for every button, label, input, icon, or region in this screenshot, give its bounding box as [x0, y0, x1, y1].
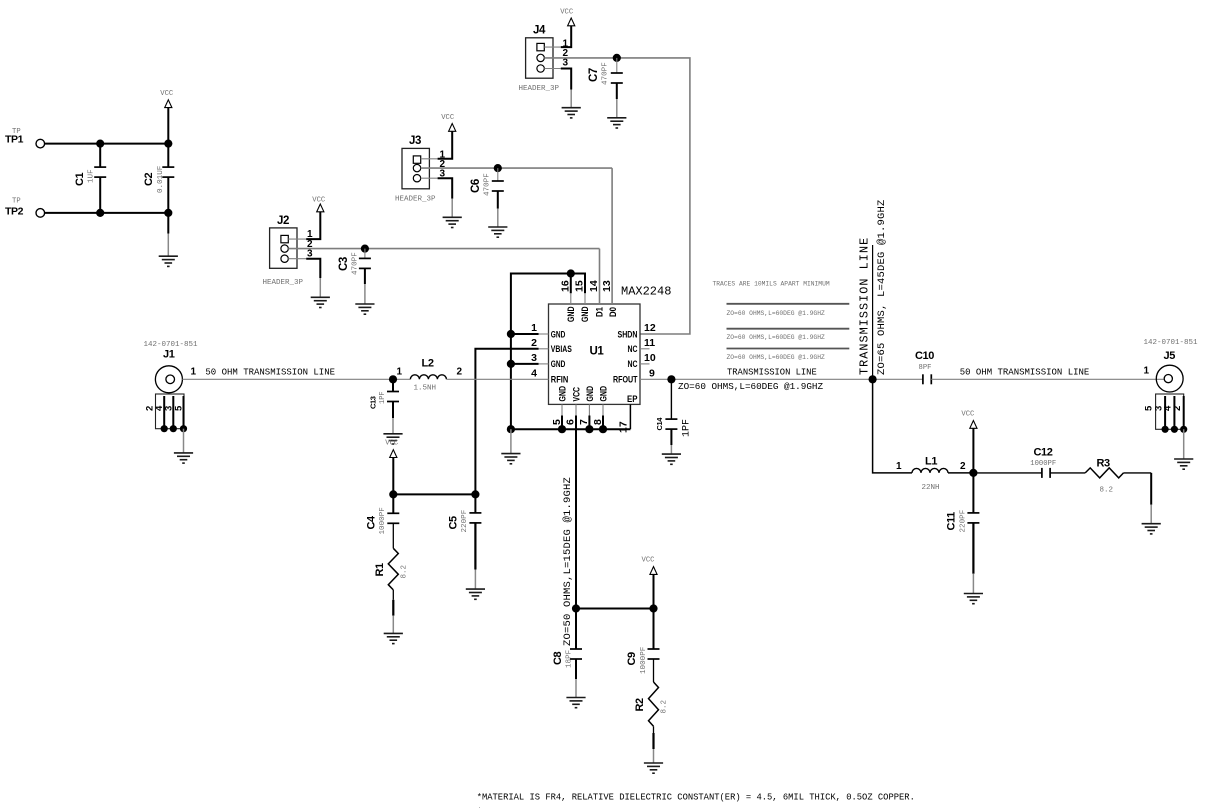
wire L1 to junction [948, 472, 973, 474]
node rail junction pin8 [599, 425, 607, 433]
trace stub 1 [727, 303, 850, 305]
svg-text:C12: C12 [1034, 447, 1053, 459]
wire U1 pin13 D0 [611, 168, 613, 304]
svg-text:TP: TP [12, 197, 21, 205]
svg-text:J2: J2 [277, 215, 289, 227]
svg-text:VCC: VCC [961, 411, 975, 419]
svg-text:8PF: 8PF [919, 364, 932, 372]
svg-text:C10: C10 [915, 350, 934, 362]
power VCC J4 [560, 9, 575, 26]
svg-text:ZO=50 OHMS,L=15DEG @1.9GHZ: ZO=50 OHMS,L=15DEG @1.9GHZ [562, 477, 574, 646]
svg-text:470PF: 470PF [352, 252, 360, 275]
wire TP1 to C2 [45, 143, 169, 145]
ground R1 [384, 633, 403, 643]
svg-text:8.2: 8.2 [661, 700, 669, 714]
wire U1 pin11 NC stub [640, 348, 650, 350]
ground J3 pin3 [443, 217, 462, 227]
svg-text:J5: J5 [1164, 350, 1176, 362]
connector J1 [144, 341, 199, 453]
svg-text:ZO=65 OHMS, L=45DEG @1.9GHZ: ZO=65 OHMS, L=45DEG @1.9GHZ [876, 199, 888, 375]
node rail junction pin5 [558, 425, 566, 433]
wire J2 pin3 to ground [288, 259, 320, 298]
svg-text:TP1: TP1 [5, 134, 24, 146]
ground C5 [466, 589, 485, 599]
ground R3 [1142, 524, 1161, 534]
wire U1 EP pin17 [629, 404, 631, 429]
wire J2 pin2 to D1 net [288, 248, 599, 250]
svg-text:ZO=60 OHMS,L=60DEG @1.9GHZ: ZO=60 OHMS,L=60DEG @1.9GHZ [727, 334, 825, 341]
svg-text:1000PF: 1000PF [1030, 460, 1056, 468]
svg-text:1: 1 [1144, 366, 1150, 377]
svg-text:NC: NC [628, 344, 638, 354]
svg-text:R2: R2 [634, 698, 646, 712]
svg-text:GND: GND [566, 306, 576, 322]
svg-text:EP: EP [627, 394, 638, 404]
wire U1 pin3 GND [511, 363, 549, 365]
node TP1/C1 junction [96, 140, 104, 148]
wire RFOUT to C10 [640, 378, 923, 380]
svg-text:GND: GND [558, 386, 568, 402]
node rail junction pin7 [585, 425, 593, 433]
capacitor C5 [448, 494, 482, 589]
svg-text:1000PF: 1000PF [640, 646, 648, 674]
svg-text:ZO=60 OHMS,L=60DEG @1.9GHZ: ZO=60 OHMS,L=60DEG @1.9GHZ [727, 354, 825, 361]
svg-text:1PF: 1PF [682, 419, 693, 437]
svg-text:RFIN: RFIN [551, 375, 569, 385]
svg-text:12: 12 [644, 322, 656, 334]
ground C14 [662, 454, 681, 464]
connector J2 [263, 215, 314, 287]
wire L2 to RFIN [446, 378, 548, 380]
svg-text:8.2: 8.2 [401, 565, 409, 579]
node C9 junction [649, 604, 657, 612]
svg-text:2: 2 [960, 461, 966, 472]
ground C6 [488, 227, 507, 237]
wire TP2 to C2 [45, 212, 169, 214]
svg-text:VCC: VCC [312, 197, 326, 205]
resistor R1 [374, 548, 409, 633]
node J4/C7 junction [613, 54, 621, 62]
connector J4 [519, 25, 569, 93]
connector J3 [395, 135, 446, 203]
wire rail to ground [510, 429, 512, 453]
wire R3 to ground [1150, 473, 1152, 524]
wire junction down to L1 [873, 379, 912, 473]
node C8 junction [572, 604, 580, 612]
svg-text:8.2: 8.2 [1100, 487, 1114, 495]
capacitor C6 [470, 168, 504, 227]
svg-text:11: 11 [644, 337, 655, 349]
svg-text:5: 5 [173, 405, 184, 411]
ground R2 [644, 763, 663, 773]
capacitor C14 [655, 379, 693, 454]
svg-text:4: 4 [531, 367, 537, 379]
svg-text:50 OHM TRANSMISSION LINE: 50 OHM TRANSMISSION LINE [960, 367, 1090, 377]
ground C13 [383, 434, 402, 444]
wire U1 pin6 VCC down [575, 404, 577, 608]
ground C3 [355, 304, 374, 314]
wire J3 pin2 to D0 net [421, 167, 612, 169]
node TP2/C1 junction [96, 209, 104, 217]
svg-text:GND: GND [585, 386, 595, 402]
svg-text:9: 9 [649, 367, 655, 379]
svg-text:C6: C6 [470, 179, 482, 193]
ground C11 [964, 594, 983, 604]
ground C7 [607, 118, 626, 128]
wire J1 to L2 [182, 378, 410, 380]
svg-text:VCC: VCC [642, 557, 656, 565]
wire J3 pin3 to ground [421, 178, 453, 217]
node GND top junction [567, 269, 575, 277]
svg-text:220PF: 220PF [461, 509, 469, 532]
svg-text:C14: C14 [655, 417, 664, 431]
svg-text:GND: GND [551, 329, 566, 339]
svg-text:C1: C1 [74, 172, 86, 186]
wire J4 pin3 to ground [544, 69, 571, 108]
node C14 junction [667, 375, 675, 383]
svg-text:1: 1 [397, 366, 403, 377]
svg-text:1.5NH: 1.5NH [414, 384, 437, 392]
connector J5 [1144, 339, 1199, 459]
wire U1 pin2 VBIAS [475, 349, 548, 495]
svg-text:C2: C2 [143, 172, 155, 186]
wire C12 to R3 [1050, 472, 1085, 474]
wire J4 pin2 to SHDN net [544, 58, 690, 334]
svg-text:2: 2 [1172, 406, 1183, 411]
svg-text:470PF: 470PF [602, 62, 610, 85]
power VCC C9 [642, 557, 658, 609]
capacitor C11 [946, 473, 980, 594]
svg-text:SHDN: SHDN [618, 329, 638, 339]
svg-text:R3: R3 [1097, 458, 1111, 470]
ground J2 pin3 [311, 297, 330, 307]
svg-text:RFOUT: RFOUT [613, 375, 638, 385]
svg-text:0.01UF: 0.01UF [157, 165, 165, 193]
wire U1 pin10 NC stub [640, 363, 650, 365]
svg-text:C4: C4 [366, 515, 378, 530]
svg-text:1: 1 [896, 461, 902, 472]
svg-text:MAX2248: MAX2248 [621, 285, 671, 299]
capacitor C9 [626, 609, 660, 683]
svg-text:50 OHM TRANSMISSION LINE: 50 OHM TRANSMISSION LINE [205, 367, 335, 377]
power VCC L1 [961, 411, 977, 473]
node TP1/C2 junction [164, 140, 172, 148]
svg-text:6: 6 [565, 419, 577, 425]
wire J2 pin1 to VCC [288, 211, 320, 239]
svg-text:1PF: 1PF [379, 391, 387, 404]
wire U1 pin1 GND [511, 333, 549, 335]
node L1/C11 junction [969, 469, 977, 477]
power VCC J3 [441, 114, 456, 131]
svg-text:VBIAS: VBIAS [551, 344, 572, 354]
svg-text:VCC: VCC [571, 387, 581, 402]
svg-text:L2: L2 [422, 358, 434, 370]
svg-text:TRANSMISSION LINE: TRANSMISSION LINE [727, 368, 817, 378]
ground C8 [566, 698, 585, 708]
svg-text:C3: C3 [338, 257, 350, 271]
wire C10 to J5 [931, 378, 1164, 380]
svg-text:D1: D1 [595, 307, 605, 317]
trace stub 2 [727, 328, 850, 330]
ground J5 [1174, 459, 1193, 469]
resistor R3 [1085, 458, 1151, 495]
capacitor C13 [369, 379, 400, 434]
svg-text:U1: U1 [590, 346, 605, 358]
svg-text:GND: GND [551, 359, 566, 369]
testpoint TP1 [5, 128, 45, 148]
wire junction to C12 [973, 472, 1042, 474]
svg-text:*MATERIAL IS FR4, RELATIVE DIE: *MATERIAL IS FR4, RELATIVE DIELECTRIC CO… [477, 793, 915, 803]
svg-text:HEADER_3P: HEADER_3P [519, 85, 560, 93]
inductor L2 [410, 358, 446, 393]
ground J1 [174, 453, 193, 463]
svg-text:3: 3 [531, 352, 537, 364]
resistor R2 [634, 682, 669, 763]
wire GND net left of U1 [511, 274, 585, 430]
svg-text:HEADER_3P: HEADER_3P [395, 195, 436, 203]
svg-text:2: 2 [457, 366, 463, 377]
power VCC J2 [312, 197, 326, 212]
testpoint TP2 [5, 197, 45, 217]
svg-text:GND: GND [580, 306, 590, 322]
svg-text:VCC: VCC [385, 440, 399, 448]
svg-text:220PF: 220PF [960, 509, 968, 532]
node C5 junction [471, 490, 479, 498]
svg-text:470PF: 470PF [484, 173, 492, 196]
svg-text:R1: R1 [374, 563, 386, 577]
node main line junction [869, 375, 877, 383]
svg-text:L1: L1 [925, 456, 937, 468]
svg-text:C7: C7 [588, 68, 600, 82]
node J3/C6 junction [494, 164, 502, 172]
ground C2 [159, 256, 178, 266]
svg-text:C11: C11 [946, 512, 958, 531]
trace stub 3 [727, 348, 850, 350]
svg-text:10: 10 [644, 352, 656, 364]
svg-text:GND: GND [598, 386, 608, 402]
svg-text:NC: NC [628, 359, 638, 369]
svg-text:TP2: TP2 [5, 205, 24, 217]
wire J4 pin1 to VCC [544, 25, 571, 47]
svg-text:J4: J4 [533, 25, 546, 37]
capacitor C8 [552, 609, 582, 698]
wire transmission line vertical [872, 245, 874, 379]
svg-text:ZO=60 OHMS,L=60DEG @1.9GHZ: ZO=60 OHMS,L=60DEG @1.9GHZ [727, 310, 825, 317]
wire U1 pin14 D1 [599, 249, 601, 304]
svg-text:22NH: 22NH [922, 484, 940, 492]
svg-text:C13: C13 [369, 396, 378, 409]
svg-text:HEADER_3P: HEADER_3P [263, 279, 304, 287]
svg-text:3: 3 [563, 58, 569, 69]
svg-text:14: 14 [588, 280, 600, 292]
capacitor C10 [915, 350, 934, 384]
svg-text:1UF: 1UF [88, 169, 96, 183]
svg-text:VCC: VCC [160, 90, 174, 98]
svg-text:1: 1 [531, 322, 537, 334]
svg-text:J3: J3 [409, 135, 421, 147]
svg-text:142-0701-851: 142-0701-851 [1144, 339, 1199, 347]
capacitor C2 [143, 144, 174, 257]
capacitor C7 [588, 58, 623, 118]
svg-text:VCC: VCC [441, 114, 455, 122]
svg-text:1000PF: 1000PF [379, 507, 387, 535]
node pin1 junction [507, 330, 515, 338]
power VCC C2 [160, 90, 174, 144]
capacitor C12 [1030, 447, 1056, 478]
capacitor C4 [366, 494, 400, 548]
wire VBIAS junction rail [393, 493, 475, 495]
node TP2/C2 junction [164, 209, 172, 217]
node L2 pin1 junction [389, 375, 397, 383]
svg-text:18PF: 18PF [566, 649, 574, 668]
capacitor C3 [338, 249, 371, 304]
svg-text:J1: J1 [163, 349, 175, 361]
node C4 junction [389, 490, 397, 498]
power VCC VBIAS [385, 440, 399, 495]
svg-text:ZO=60 OHMS,L=60DEG @1.9GHZ: ZO=60 OHMS,L=60DEG @1.9GHZ [678, 381, 823, 392]
node rail junction left [507, 425, 515, 433]
inductor L1 [912, 456, 948, 492]
svg-text:C8: C8 [552, 651, 564, 665]
svg-text:TRACES ARE 10MILS APART MINIMU: TRACES ARE 10MILS APART MINIMUM [713, 281, 830, 288]
wire J3 pin1 to VCC [421, 131, 453, 159]
node pin3 junction [507, 360, 515, 368]
svg-text:15: 15 [574, 280, 586, 292]
wire pin6 rail to C8 C9 [576, 608, 654, 610]
svg-text:VCC: VCC [560, 9, 574, 17]
svg-text:2: 2 [531, 337, 537, 349]
svg-text:TRANSMISSION LINE: TRANSMISSION LINE [858, 237, 872, 375]
svg-text:D0: D0 [608, 307, 618, 317]
svg-text:C5: C5 [448, 516, 460, 530]
node J2/C3 junction [361, 245, 369, 253]
op-amp U1 MAX2248 body [549, 285, 672, 405]
svg-text:1: 1 [191, 367, 197, 378]
ground J4 pin3 [562, 108, 581, 118]
wire U1 bottom GND rail [511, 404, 631, 429]
svg-text:17: 17 [618, 421, 630, 433]
ground U1 rail [501, 454, 520, 464]
svg-text:C9: C9 [626, 652, 638, 666]
capacitor C1 [74, 144, 106, 213]
